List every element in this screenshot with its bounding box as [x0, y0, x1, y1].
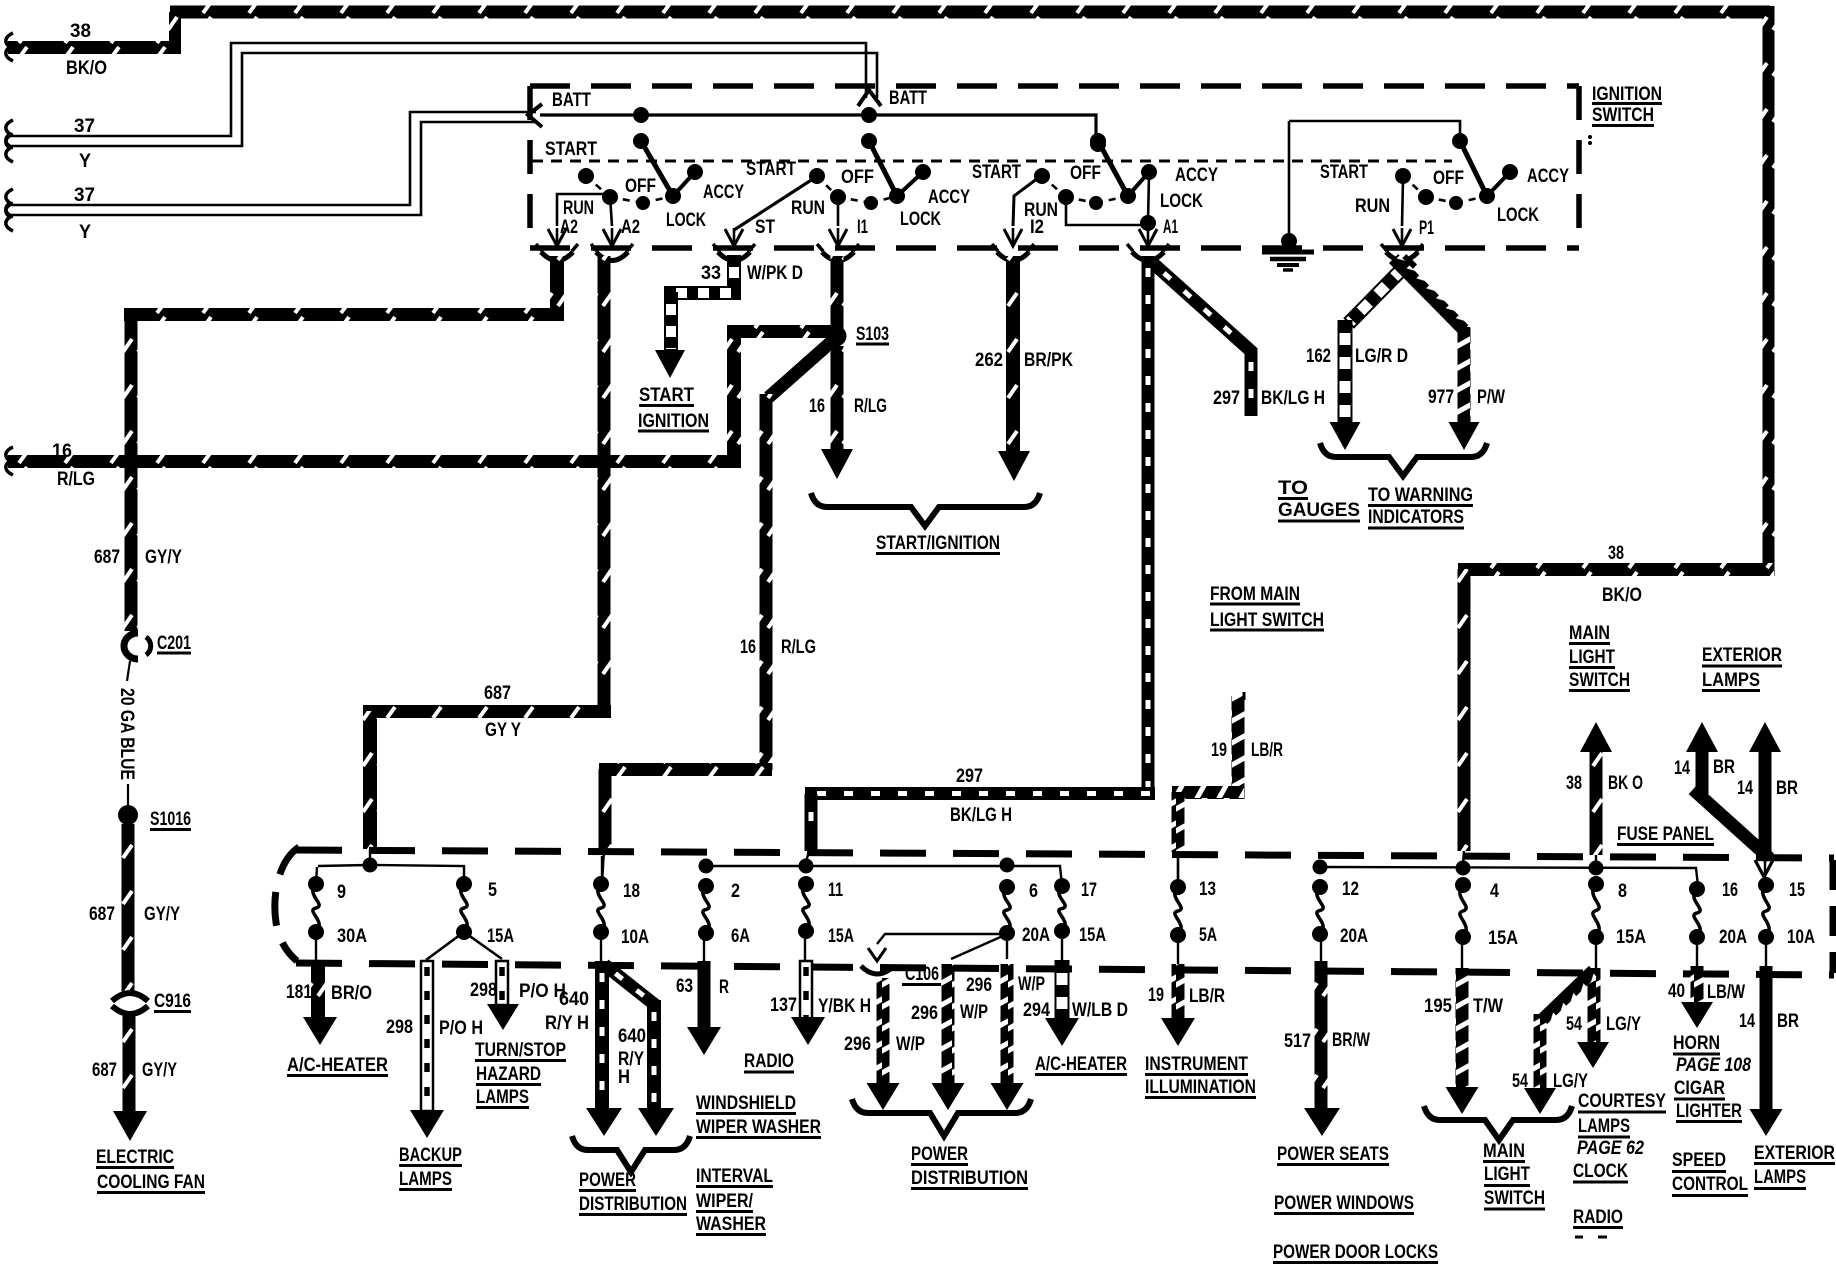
svg-text:W/LB D: W/LB D: [1072, 1000, 1128, 1021]
arrow 517: [1304, 1108, 1340, 1136]
fuse panel dashed top edge: [296, 850, 1834, 858]
svg-text:W/P: W/P: [1018, 974, 1045, 995]
terminal arrow I1: [829, 229, 847, 246]
svg-text:GY/Y: GY/Y: [142, 1060, 177, 1081]
wire 38 BK/O left stub: [8, 41, 181, 54]
wire 687 GY/Y lower column: [123, 1016, 136, 1115]
arrow into BATT 1: [528, 104, 542, 127]
wire fuse 12 bottom lead: [1320, 934, 1322, 961]
svg-text:P1: P1: [1419, 218, 1434, 239]
brace power dist 1: [572, 1136, 690, 1172]
fuse panel dashed bottom edge: [296, 963, 1834, 975]
brace main light switch: [1424, 1106, 1572, 1140]
splice S103: [826, 326, 847, 347]
wire S103 diagonal: [764, 337, 836, 402]
svg-text:296: 296: [966, 975, 992, 996]
arrow 298 left: [410, 1110, 444, 1138]
svg-text:9: 9: [337, 882, 346, 903]
connector C106 cup: [861, 966, 894, 974]
svg-text:40: 40: [1668, 981, 1685, 1002]
arrow 294: [1045, 1018, 1079, 1046]
wire 687 GY Y horizontal: [363, 705, 611, 718]
arrow 14 BR first up: [1686, 722, 1718, 752]
svg-text:CONTROL: CONTROL: [1672, 1174, 1748, 1195]
svg-text:START/IGNITION: START/IGNITION: [876, 533, 1000, 554]
svg-text:298: 298: [386, 1017, 413, 1038]
svg-text:POWER WINDOWS: POWER WINDOWS: [1274, 1193, 1414, 1214]
svg-text:OFF: OFF: [841, 167, 874, 188]
wire 16 R/LG to fuse 18: [599, 769, 612, 850]
svg-text:BR: BR: [1713, 757, 1735, 778]
arrow 14 BR second up: [1749, 722, 1781, 752]
svg-text:14: 14: [1674, 758, 1690, 779]
wire A1 long drop: [1142, 256, 1155, 794]
wire 54 LG/Y left drop: [1534, 1014, 1547, 1090]
svg-text:63: 63: [676, 976, 693, 997]
svg-text:START: START: [545, 139, 597, 160]
fuse bus junction dot f8: [1589, 861, 1604, 876]
wire 38 BK/O right border drop: [1763, 6, 1775, 576]
svg-text:BACKUP: BACKUP: [399, 1145, 462, 1166]
svg-text:BR: BR: [1777, 1011, 1799, 1032]
fuse 4: [1455, 877, 1471, 893]
section 1 RUN wiring: [557, 194, 610, 226]
svg-text:FROM MAIN: FROM MAIN: [1210, 584, 1300, 605]
fuse panel dashed right edge: [1830, 860, 1836, 973]
svg-text:LOCK: LOCK: [900, 209, 941, 230]
wire 517 BR/W: [1315, 961, 1328, 1112]
arrow electric cooling fan: [113, 1111, 147, 1141]
svg-text:W/P: W/P: [896, 1034, 925, 1055]
fuse panel dashed left curve: [275, 847, 299, 961]
wire fuse 11 bottom lead: [804, 931, 806, 961]
splice S1016: [118, 805, 138, 825]
wire fuse 13 top lead: [1177, 856, 1179, 885]
arrow 181: [303, 1017, 337, 1045]
fuse bus junction dot f4: [1456, 861, 1471, 876]
arrow 63 R: [687, 1027, 721, 1055]
wire 14 BR second bar: [1759, 750, 1772, 852]
terminal cup A2-1: [541, 252, 573, 261]
svg-text:T/W: T/W: [1473, 996, 1503, 1017]
wire 14 BR lower: [1760, 966, 1773, 1113]
svg-text:C201: C201: [157, 633, 191, 654]
arrow 296 third: [991, 1083, 1024, 1110]
svg-text:14: 14: [1739, 1011, 1755, 1032]
fuse 17: [1054, 878, 1070, 894]
section 3 I2 link: [1013, 175, 1042, 226]
svg-text:ACCY: ACCY: [928, 187, 970, 208]
wire A2-1 horizontal run: [124, 308, 564, 321]
svg-text:181: 181: [286, 982, 312, 1003]
fuse 6: [999, 879, 1015, 895]
section 3 A1 links: [1066, 197, 1146, 225]
svg-text:54: 54: [1512, 1071, 1528, 1092]
terminal arrow I2: [1004, 229, 1022, 246]
wire fuse 18 entry: [602, 850, 604, 883]
svg-text:MAIN: MAIN: [1569, 623, 1610, 644]
svg-text:START: START: [746, 159, 796, 180]
svg-text:S103: S103: [856, 324, 889, 345]
svg-text:START: START: [639, 385, 694, 406]
fuse bus right: [1320, 867, 1698, 886]
svg-text:LAMPS: LAMPS: [1578, 1116, 1630, 1137]
svg-text:A1: A1: [1163, 217, 1178, 238]
svg-text:38: 38: [1566, 773, 1582, 794]
wire A2-2 drop: [598, 256, 611, 712]
svg-text:20A: 20A: [1719, 927, 1747, 948]
wire 687 GY/Y mid column: [122, 824, 135, 993]
connector C201: [124, 633, 138, 659]
svg-text:13: 13: [1199, 879, 1216, 900]
arrow 54 straight: [1577, 1042, 1609, 1068]
fuse 2: [698, 878, 714, 894]
wire 16 R/LG long drop: [760, 394, 773, 770]
svg-text:WINDSHIELD: WINDSHIELD: [696, 1093, 796, 1114]
wire 977 P/W vertical: [1458, 327, 1471, 425]
svg-text:HORN: HORN: [1673, 1033, 1720, 1054]
svg-text:I2: I2: [1030, 217, 1044, 238]
fuse bus mid: [706, 866, 1062, 886]
svg-text:GY/Y: GY/Y: [144, 904, 180, 925]
wire fuse 18 top lead: [601, 856, 603, 883]
svg-text:A2: A2: [621, 217, 640, 238]
wire fuse 16 bottom lead: [1696, 937, 1698, 966]
svg-text:SPEED: SPEED: [1672, 1150, 1726, 1171]
wire 296 W/P first: [877, 978, 890, 1088]
arrow 162: [1330, 422, 1361, 450]
svg-text:687: 687: [484, 683, 511, 704]
arrow 296 first: [867, 1083, 900, 1110]
wire 19 LB/R lower wire: [1172, 964, 1185, 1023]
svg-text:ACCY: ACCY: [1527, 166, 1569, 187]
ignition switch section 4 contacts: [1452, 133, 1468, 149]
svg-text:15A: 15A: [828, 926, 854, 947]
svg-text:W/PK D: W/PK D: [747, 263, 803, 284]
svg-text:LIGHT: LIGHT: [1569, 647, 1615, 668]
wire 16 R/LG bus: [8, 455, 741, 468]
svg-text:C916: C916: [154, 991, 191, 1012]
svg-text:16: 16: [52, 441, 72, 462]
svg-text:16: 16: [740, 637, 756, 658]
svg-text:687: 687: [89, 904, 115, 925]
arrow into C106: [868, 948, 886, 961]
wire 162 LG/R D vertical: [1339, 321, 1352, 423]
svg-text:15A: 15A: [1616, 927, 1646, 948]
svg-text:16: 16: [1722, 880, 1738, 901]
svg-text:BK/O: BK/O: [66, 58, 107, 79]
wire 296 W/P second: [942, 964, 955, 1088]
ignition switch section 2 contacts: [861, 107, 877, 123]
terminal arrow ST: [725, 229, 743, 246]
svg-text:MAIN: MAIN: [1483, 1141, 1525, 1162]
svg-text:SWITCH: SWITCH: [1569, 670, 1630, 691]
wire A2-1 drop: [550, 256, 564, 314]
brace power dist 2: [852, 1099, 1031, 1136]
ignition switch section 3 contacts: [1090, 133, 1106, 149]
wire 63 R solid: [698, 961, 711, 1033]
svg-text:DISTRIBUTION: DISTRIBUTION: [911, 1168, 1028, 1189]
wire S103 down: [831, 346, 844, 450]
wire C106 feed line: [877, 934, 1005, 944]
terminal cup I1: [822, 252, 854, 261]
section 2 run-to-terminal: [837, 197, 840, 226]
svg-text:A/C-HEATER: A/C-HEATER: [1035, 1054, 1127, 1075]
wire 33 W/PK D vertical 1: [728, 256, 740, 293]
svg-text:POWER SEATS: POWER SEATS: [1277, 1144, 1389, 1165]
wire C201 tail: [127, 661, 130, 681]
svg-text:977: 977: [1428, 387, 1454, 408]
fuse 13: [1170, 879, 1186, 895]
arrow 640 right: [638, 1108, 674, 1136]
arrow 16 R/LG down: [821, 449, 853, 479]
svg-text:PAGE 108: PAGE 108: [1676, 1055, 1751, 1076]
svg-text:TO: TO: [1278, 478, 1308, 499]
ignition switch dashed box: [530, 83, 1579, 89]
svg-text:LOCK: LOCK: [1497, 205, 1539, 226]
wire to S1016: [127, 784, 129, 806]
svg-text:RUN: RUN: [791, 198, 825, 219]
svg-text:8: 8: [1618, 881, 1627, 902]
svg-text:Y: Y: [79, 222, 91, 243]
fuse 11: [798, 876, 814, 892]
svg-text:15A: 15A: [487, 926, 514, 947]
svg-text:CLOCK: CLOCK: [1573, 1161, 1628, 1182]
wire 296 W/P third: [1001, 964, 1014, 1088]
svg-text:LB/R: LB/R: [1251, 740, 1283, 761]
svg-text:HAZARD: HAZARD: [476, 1064, 541, 1085]
svg-text:ILLUMINATION: ILLUMINATION: [1145, 1077, 1256, 1098]
fuse 16: [1689, 881, 1705, 897]
wire 298 P/O H left: [421, 961, 433, 1111]
svg-text:WASHER: WASHER: [696, 1214, 766, 1235]
svg-text:6A: 6A: [731, 926, 750, 947]
svg-text:640: 640: [559, 989, 589, 1010]
wire fuse 8 bottom lead: [1595, 937, 1597, 968]
label radio dots: [1575, 1236, 1583, 1239]
svg-text:GY/Y: GY/Y: [145, 547, 182, 568]
fuse 9: [308, 876, 324, 892]
wire 294 W/LB D: [1056, 961, 1069, 1023]
ground symbol: [1288, 121, 1291, 244]
svg-text:EXTERIOR: EXTERIOR: [1754, 1143, 1835, 1164]
arrow start ignition: [655, 350, 685, 378]
svg-text:S1016: S1016: [150, 809, 191, 830]
wire 297 drop to fuse 11: [805, 794, 818, 851]
wire 33 W/PK D vertical 2: [665, 293, 677, 350]
wire 14 BR first stub: [1696, 750, 1709, 794]
svg-text:BR/W: BR/W: [1332, 1030, 1370, 1051]
svg-text:RADIO: RADIO: [1573, 1207, 1623, 1228]
wire 19 LB/R upper: [1232, 696, 1245, 799]
wire fuse 2 bottom lead: [703, 933, 705, 961]
svg-text:ACCY: ACCY: [703, 182, 744, 203]
terminal cup ST: [718, 252, 750, 261]
wire 19 LB/R jog: [1172, 786, 1244, 799]
wire S103 left drop: [727, 338, 741, 462]
svg-text:RUN: RUN: [563, 198, 594, 219]
svg-text:TO WARNING: TO WARNING: [1368, 485, 1473, 506]
wire 162 LG/R D diagonal: [1345, 255, 1416, 327]
wire 37 Y second pair: [8, 112, 536, 205]
svg-text:LB/R: LB/R: [1189, 986, 1225, 1007]
wire fuse 15 bottom lead: [1765, 937, 1767, 966]
svg-text:296: 296: [911, 1003, 938, 1024]
svg-text:BK O: BK O: [1608, 773, 1643, 794]
svg-text:DISTRIBUTION: DISTRIBUTION: [579, 1194, 687, 1215]
arrow 640 left: [586, 1108, 622, 1136]
svg-text:W/P: W/P: [960, 1002, 988, 1023]
wire 640 R/Y H left: [595, 961, 609, 1112]
wire 16 R/LG jog left: [599, 763, 772, 776]
svg-text:37: 37: [74, 185, 95, 206]
svg-text:BATT: BATT: [552, 90, 591, 111]
svg-text:5: 5: [488, 880, 497, 901]
arrow 19 lower: [1161, 1018, 1195, 1046]
section 2 ST diagonal: [734, 177, 816, 230]
wire fuse 9 bottom lead: [315, 932, 317, 961]
wire 977 P/W diagonal: [1389, 254, 1470, 336]
wire 14 BR first diagonal: [1689, 784, 1774, 863]
wire 640 R/Y H diagonal: [600, 960, 659, 1011]
terminal cup A2-2: [596, 252, 628, 261]
fuse 12: [1312, 879, 1328, 895]
svg-text:R/LG: R/LG: [57, 469, 95, 490]
svg-text:BR: BR: [1776, 778, 1798, 799]
svg-text:INSTRUMENT: INSTRUMENT: [1145, 1054, 1248, 1075]
svg-text:38: 38: [1608, 543, 1624, 564]
arrow into BATT 2: [858, 90, 881, 106]
svg-text:LG/Y: LG/Y: [1606, 1014, 1641, 1035]
wire 40 LB/W: [1691, 966, 1704, 1006]
svg-text:R/LG: R/LG: [854, 396, 887, 417]
svg-text:19: 19: [1148, 985, 1164, 1006]
svg-text:EXTERIOR: EXTERIOR: [1702, 645, 1782, 666]
wire 640 R/Y H right: [647, 1000, 661, 1112]
ignition switch section 1 contacts: [633, 107, 649, 123]
wire S103 left arm: [727, 325, 838, 338]
arrow 38 BK O up: [1580, 722, 1612, 752]
svg-text:15: 15: [1789, 880, 1805, 901]
svg-text:FUSE PANEL: FUSE PANEL: [1617, 824, 1714, 845]
svg-text:18: 18: [623, 881, 640, 902]
svg-text:20A: 20A: [1340, 926, 1368, 947]
svg-text:10A: 10A: [1787, 927, 1815, 948]
wire I1 to S103: [831, 256, 844, 336]
wire C106 diagonal feed: [951, 935, 1005, 959]
svg-text:38: 38: [70, 21, 91, 42]
svg-text:CIGAR: CIGAR: [1674, 1078, 1725, 1099]
section 4 ground feed: [1289, 121, 1460, 138]
arrow into fuse 15: [1755, 860, 1773, 877]
svg-text:517: 517: [1284, 1031, 1311, 1052]
svg-text:START: START: [1320, 162, 1368, 183]
terminal cup A1: [1132, 252, 1164, 261]
svg-text:298: 298: [470, 980, 497, 1001]
wire 38 BK/O horizontal right: [1458, 563, 1774, 576]
svg-text:LB/W: LB/W: [1707, 982, 1745, 1003]
wire 38 BK O bar: [1590, 750, 1603, 855]
brace start/ignition: [811, 493, 1040, 526]
svg-text:296: 296: [844, 1034, 871, 1055]
wire 687 drop to fuse panel: [363, 711, 377, 849]
arrow 977: [1449, 422, 1480, 450]
wire 297 stub vertical: [1245, 348, 1258, 416]
wire 181 BR/O: [311, 961, 325, 1021]
fuse bus junction dot f2: [699, 859, 714, 874]
wire 687 panel entry: [369, 849, 371, 860]
svg-text:17: 17: [1081, 880, 1097, 901]
terminal arrow A2-1: [548, 229, 566, 246]
svg-text:BK/O: BK/O: [1602, 585, 1642, 606]
svg-text:INDICATORS: INDICATORS: [1368, 507, 1464, 528]
arrow 54 left: [1524, 1088, 1556, 1114]
brace warning: [1320, 443, 1487, 476]
terminal cup I2: [997, 252, 1029, 261]
svg-text:RUN: RUN: [1355, 196, 1390, 217]
svg-text:4: 4: [1490, 881, 1499, 902]
wire fuse 18 bottom lead: [600, 932, 602, 961]
svg-text:P/O H: P/O H: [439, 1018, 483, 1039]
wire 54 LG/Y diagonal: [1538, 966, 1598, 1024]
svg-text:262: 262: [975, 350, 1003, 371]
svg-text:ELECTRIC: ELECTRIC: [96, 1147, 174, 1168]
svg-text:POWER DOOR LOCKS: POWER DOOR LOCKS: [1273, 1242, 1438, 1263]
svg-text:137: 137: [770, 995, 797, 1016]
svg-text:POWER: POWER: [579, 1170, 636, 1191]
wire fuse 4 bottom lead: [1461, 937, 1463, 968]
terminal arrow P1: [1393, 229, 1411, 246]
wire 33 W/PK D horizontal: [665, 287, 740, 299]
svg-text:LOCK: LOCK: [666, 210, 706, 231]
svg-text:LIGHT SWITCH: LIGHT SWITCH: [1210, 610, 1324, 631]
svg-text:R: R: [719, 977, 729, 998]
arrow 296 second: [932, 1083, 965, 1110]
fuse 8: [1588, 876, 1604, 892]
wire 297 horizontal: [805, 787, 1155, 800]
svg-text:INTERVAL: INTERVAL: [696, 1166, 773, 1187]
svg-text:LAMPS: LAMPS: [1754, 1167, 1806, 1188]
svg-text:H: H: [618, 1067, 630, 1088]
svg-text:20A: 20A: [1022, 925, 1050, 946]
svg-text:297: 297: [956, 766, 983, 787]
wire fuse 17 bottom lead: [1061, 931, 1063, 961]
fuse bus left arms: [318, 865, 368, 866]
svg-text:IGNITION: IGNITION: [638, 411, 709, 432]
wire fuse 11 entry: [806, 851, 809, 862]
svg-text:BR/PK: BR/PK: [1024, 350, 1073, 371]
wire 38 BK/O drop to fuse 4: [1458, 569, 1471, 851]
fuse 5: [456, 876, 472, 892]
svg-text:PAGE 62: PAGE 62: [1577, 1138, 1644, 1159]
arrow 298 right: [487, 1004, 519, 1030]
fuse bus junction dot f12: [1313, 860, 1328, 875]
connector C916: [112, 993, 148, 1001]
svg-text:15A: 15A: [1079, 925, 1106, 946]
svg-text:WIPER WASHER: WIPER WASHER: [696, 1117, 821, 1138]
svg-text:LIGHTER: LIGHTER: [1676, 1101, 1742, 1122]
wire BATT bus: [540, 115, 1096, 140]
svg-text:19: 19: [1211, 740, 1227, 761]
svg-text:10A: 10A: [621, 927, 649, 948]
svg-text:SWITCH: SWITCH: [1484, 1188, 1545, 1209]
svg-text:162: 162: [1306, 346, 1331, 367]
arrow 252 BR/PK: [998, 451, 1030, 481]
svg-text:P/W: P/W: [1477, 387, 1505, 408]
svg-text:BR/O: BR/O: [331, 983, 372, 1004]
svg-text:GAUGES: GAUGES: [1278, 500, 1360, 521]
svg-text:A/C-HEATER: A/C-HEATER: [287, 1055, 388, 1076]
